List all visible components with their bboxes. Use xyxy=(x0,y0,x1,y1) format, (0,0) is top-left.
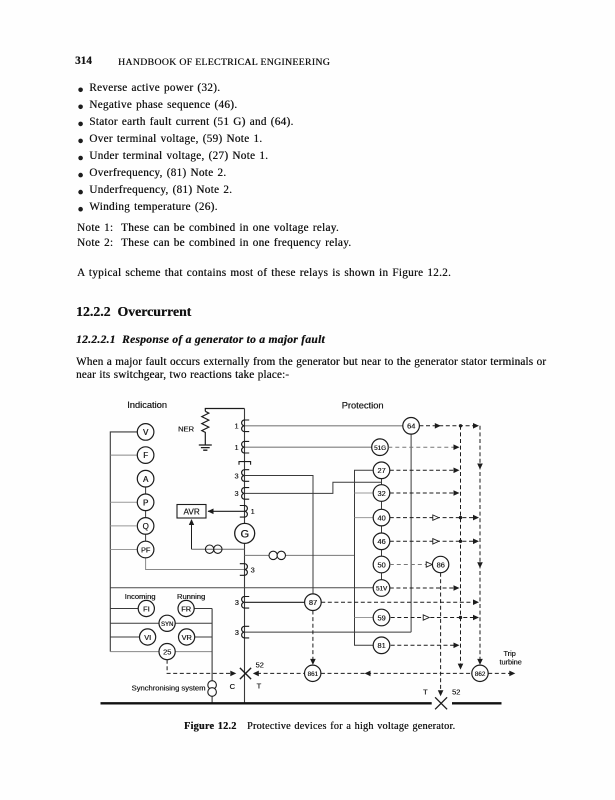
CT 2 (to 51G), pins 1 xyxy=(234,441,249,453)
wire: 25 close command to breaker 52 (dashed with arrow) xyxy=(167,660,236,677)
label Running xyxy=(177,592,205,601)
CT 4 (to 32 group), pins 3 xyxy=(234,488,249,500)
svg-text:Running: Running xyxy=(177,592,205,601)
svg-text:64: 64 xyxy=(407,422,415,431)
CT 1 (to 64), pins 1 xyxy=(234,420,249,432)
wire: stub rail to VI xyxy=(110,636,139,638)
svg-text:FI: FI xyxy=(143,604,150,613)
relay 861 (master trip) xyxy=(305,665,321,681)
notes xyxy=(77,221,351,252)
wire: sync VT drop to busbar xyxy=(211,609,213,703)
svg-text:SYN: SYN xyxy=(161,622,173,628)
section heading xyxy=(76,304,191,320)
wire: relay group rail (27 to 81) xyxy=(355,470,375,645)
relay VI xyxy=(140,629,156,645)
wire: trip row 27 to rail1 (dashed) xyxy=(390,468,460,474)
svg-text:52: 52 xyxy=(452,688,460,697)
svg-text:40: 40 xyxy=(377,514,385,523)
wire: trip row 59 to rail2 (dashed, open arrow) xyxy=(391,615,479,621)
wire: CT2 to relay 51G xyxy=(245,446,372,448)
relay 25 (synchronising check) xyxy=(159,644,175,660)
wire: metering CT to PF instrument chain xyxy=(146,558,244,570)
svg-text:A: A xyxy=(143,475,149,484)
VT 3 (synchronising, two stacked circles) xyxy=(208,681,217,697)
wire: trip row 50 to 86 (dashed, open arrow) xyxy=(390,562,432,567)
subsection heading xyxy=(76,333,325,346)
meter PF xyxy=(137,541,154,558)
body paragraph xyxy=(76,356,546,383)
bullet dots xyxy=(78,88,83,212)
resistor NER xyxy=(178,411,209,445)
wire: instrument chain A-P-Q-PF xyxy=(145,487,147,541)
wire: trip row 87 to rail2 (dashed) xyxy=(321,599,479,605)
svg-text:Indication: Indication xyxy=(127,400,167,410)
wire: indication left rail xyxy=(110,432,137,652)
meter P xyxy=(137,494,154,511)
wire: stub to PF xyxy=(110,549,137,551)
relay 50 xyxy=(373,556,390,573)
wire: relay chain 27-32-40-46-50-51V xyxy=(381,479,383,580)
wire: trip row 64 to rail2 (dashed) xyxy=(419,423,479,429)
svg-text:87: 87 xyxy=(309,598,317,607)
VT 2 (relay voltage, two overlapped circles) xyxy=(269,551,285,559)
ground xyxy=(199,445,212,450)
wire: 861 trip to generator breaker (dashed, left arrows) xyxy=(253,671,305,677)
bracket marker above CT group xyxy=(239,462,251,465)
svg-text:Q: Q xyxy=(142,522,148,531)
wire: stub rail to FI xyxy=(110,608,138,610)
wire: FR to sync VT drop xyxy=(194,608,212,610)
CT 5 (AVR excitation), pin 1, mirrored xyxy=(240,506,255,518)
svg-text:86: 86 xyxy=(436,560,444,569)
label Incoming xyxy=(125,592,156,601)
wire: stub to Q xyxy=(110,525,136,527)
svg-text:861: 861 xyxy=(307,671,318,678)
svg-text:81: 81 xyxy=(377,641,385,650)
wire: CT4 to relay 32 (stepped) xyxy=(245,482,382,493)
wire: SYN row xyxy=(110,622,212,624)
page header xyxy=(75,55,92,67)
wire: 25 row xyxy=(110,651,212,653)
svg-text:1: 1 xyxy=(251,507,255,516)
wire: trip rail 1 (dashed vertical) xyxy=(458,426,464,670)
wire: trip row 51G to rail1 (dashed) xyxy=(388,444,459,450)
svg-text:P: P xyxy=(143,498,148,507)
CT 3 (to 87 high side), pins 3 xyxy=(234,470,249,482)
wire: trip row 32 to rail1 (dashed) xyxy=(390,490,460,496)
wire: CT1 to relay 64 xyxy=(245,425,403,427)
svg-text:VI: VI xyxy=(144,633,151,642)
svg-text:NER: NER xyxy=(178,425,195,434)
wire: stub to P xyxy=(110,501,137,503)
paragraph xyxy=(77,267,451,279)
wire: bus to relay rail (VT feed) xyxy=(245,554,355,556)
svg-text:Incoming: Incoming xyxy=(125,592,156,601)
busbar (bottom, right section) xyxy=(452,702,502,704)
svg-text:1: 1 xyxy=(234,443,238,452)
meter Q xyxy=(137,518,154,535)
wire: rail stub to 59 xyxy=(355,617,375,619)
wire: rail stub to 32 xyxy=(355,492,374,494)
bullet list xyxy=(77,80,294,216)
svg-text:3: 3 xyxy=(235,628,239,637)
relay 51V xyxy=(373,580,390,597)
svg-text:1: 1 xyxy=(234,422,238,431)
relay 862 (turbine trip) xyxy=(472,665,488,681)
wire: main generator bus (vertical) xyxy=(244,409,246,704)
svg-text:32: 32 xyxy=(377,489,385,498)
wire: NER top wire to generator bus xyxy=(205,409,244,412)
meter F xyxy=(137,447,154,464)
relay 32 xyxy=(373,485,390,502)
wire: VR to sync VT drop xyxy=(195,636,212,638)
wire: rail stub to 40 xyxy=(355,517,374,519)
label Indication xyxy=(127,400,167,410)
wire: trip row 81 to rail1 (dashed) xyxy=(391,643,460,649)
relay SYN xyxy=(159,615,175,631)
relay FR xyxy=(178,600,194,616)
relay 27 xyxy=(373,462,390,479)
svg-text:51G: 51G xyxy=(374,445,386,452)
svg-text:3: 3 xyxy=(234,471,238,480)
figure caption xyxy=(184,721,455,732)
CT 8 (87 low / 64), pin 3 xyxy=(235,626,250,638)
relay 40 xyxy=(373,509,390,526)
wire: 862 to trip turbine (dashed, right arrow) xyxy=(488,671,515,677)
svg-text:C: C xyxy=(230,682,236,691)
relay 59 xyxy=(373,609,390,626)
svg-text:V: V xyxy=(143,428,149,437)
svg-text:T: T xyxy=(257,681,262,690)
svg-text:50: 50 xyxy=(377,560,385,569)
svg-text:T: T xyxy=(423,688,428,697)
svg-text:G: G xyxy=(240,529,249,541)
wire: bus CT to AVR with arrow xyxy=(208,509,245,515)
label Trip turbine xyxy=(499,649,521,667)
wire: stub to F xyxy=(110,454,137,456)
wire: 64 drop to CT8 line xyxy=(410,434,412,632)
relay 46 xyxy=(373,533,390,550)
wire: VT line to indication and 51V (long horizontal) xyxy=(110,587,373,589)
relay VR xyxy=(179,629,195,645)
busbar (bottom, left section) xyxy=(101,702,432,704)
svg-text:PF: PF xyxy=(141,545,151,554)
generator G xyxy=(235,523,255,543)
svg-text:25: 25 xyxy=(163,648,171,657)
wire: trip row 46 to rail2 (dashed, open arrow) xyxy=(390,539,479,545)
wire: CT8 return line to 64 drop xyxy=(245,631,411,633)
relay 64 xyxy=(403,418,420,435)
wire: 86 trip drop to turbine breaker (dashed) xyxy=(438,573,444,697)
breaker 52 generator (X) xyxy=(230,661,264,691)
svg-text:27: 27 xyxy=(377,466,385,475)
relay 51G xyxy=(372,439,389,456)
relay 87 (differential) xyxy=(305,594,322,611)
CT 6 (metering, to PF), pin 3, mirrored xyxy=(240,564,255,576)
svg-text:52: 52 xyxy=(256,661,264,670)
wire: trip rails to 861 (dashed row, left arrow) xyxy=(321,671,472,677)
wire: CT3 to differential relay 87 xyxy=(245,476,313,594)
wire: AVR voltage feedback with up arrow xyxy=(189,519,245,549)
svg-text:3: 3 xyxy=(251,566,255,575)
relay 81 xyxy=(373,637,390,654)
meter A xyxy=(137,470,154,487)
relay 86 (lockout) xyxy=(432,556,448,572)
svg-text:3: 3 xyxy=(234,489,238,498)
svg-text:VR: VR xyxy=(181,633,191,642)
svg-text:Synchronising system: Synchronising system xyxy=(132,683,206,692)
meter V xyxy=(137,424,154,441)
svg-text:3: 3 xyxy=(235,598,239,607)
label Protection xyxy=(342,401,384,411)
wire: CT7 to 87 low side xyxy=(245,601,305,603)
svg-text:59: 59 xyxy=(377,613,385,622)
AVR box U-AVR xyxy=(177,505,206,519)
wire: trip row 40 to rail2 (dashed, open arrow) xyxy=(390,515,479,521)
wire: 87 trip drop to 861 (dashed with down arrow) xyxy=(310,611,316,665)
wire: trip row 51V to rail1 (dashed) xyxy=(390,585,460,591)
svg-text:FR: FR xyxy=(181,604,191,613)
svg-text:AVR: AVR xyxy=(183,508,199,517)
svg-text:F: F xyxy=(143,451,148,460)
CT 7 (87 high), pin 3 xyxy=(235,597,250,609)
svg-text:46: 46 xyxy=(377,537,385,546)
wire: trip rail 2 (dashed vertical to 862) xyxy=(477,426,483,665)
svg-text:862: 862 xyxy=(475,671,486,678)
svg-text:turbine: turbine xyxy=(499,657,521,666)
VT 1 (AVR sensing, two overlapped circles) xyxy=(205,545,222,553)
breaker 52 turbine (X on busbar) xyxy=(423,688,460,710)
label Synchronising system xyxy=(132,683,206,692)
svg-text:Protection: Protection xyxy=(342,401,384,411)
svg-text:51V: 51V xyxy=(376,586,388,593)
relay FI xyxy=(138,600,154,616)
